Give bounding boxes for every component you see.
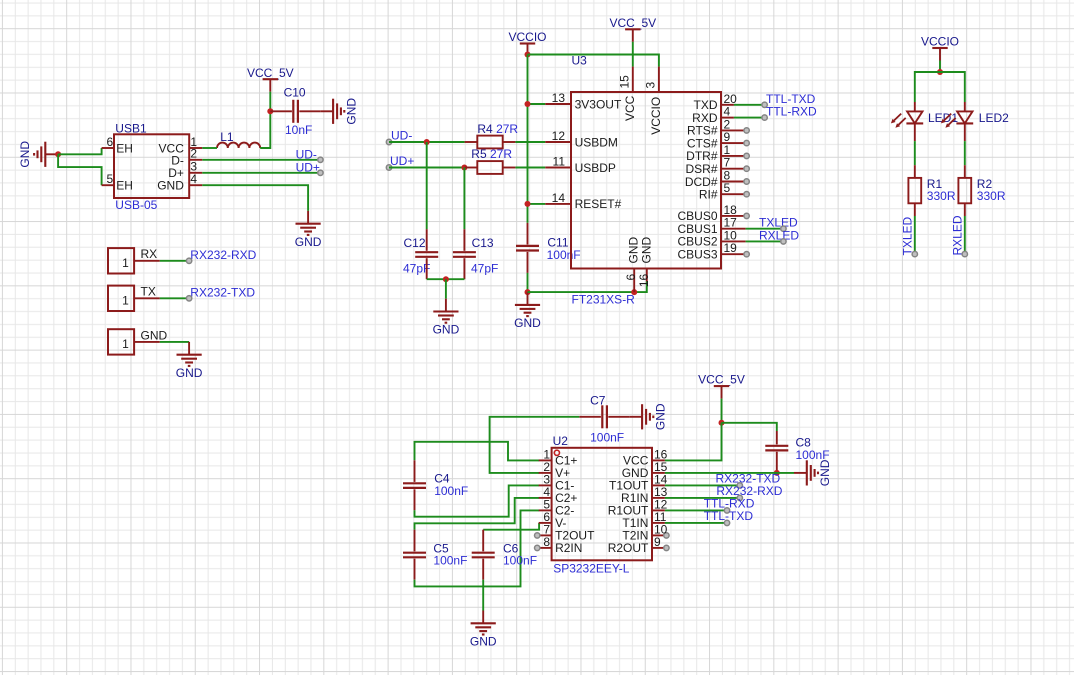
wire C5 to U2 C2-: [415, 510, 540, 586]
pin 18 CBUS0: [677, 203, 749, 223]
wire C11 to ground node: [527, 273, 529, 292]
svg-text:FT231XS-R: FT231XS-R: [572, 292, 636, 306]
wire R1OUT to TTL-RXD: [665, 509, 727, 511]
svg-text:GND: GND: [176, 366, 203, 380]
svg-text:VCCIO: VCCIO: [649, 97, 663, 135]
svg-text:13: 13: [552, 91, 566, 105]
net port TTL-RXD (U2): [704, 496, 755, 513]
op-amp U3 FT231XS-R body: [571, 54, 721, 307]
capacitor C8 100nF: [765, 431, 829, 473]
wire VCCIO rail down: [527, 55, 529, 223]
svg-text:100nF: 100nF: [590, 431, 624, 445]
svg-text:U3: U3: [572, 54, 588, 68]
pin 17 CBUS1: [677, 216, 745, 236]
svg-text:1: 1: [122, 293, 129, 307]
svg-text:EH: EH: [116, 141, 133, 155]
wire R2 to RXLED port: [964, 216, 966, 254]
svg-text:GND: GND: [295, 235, 322, 249]
svg-text:4: 4: [190, 172, 197, 186]
wire T1OUT to RX232-TXD: [665, 484, 740, 486]
wire U2 VCC pin to VCC_5V: [665, 423, 722, 461]
svg-text:RX232-RXD: RX232-RXD: [190, 248, 256, 262]
pin 16 VCC: [623, 447, 668, 467]
wire GND to USB1 pin 5: [58, 154, 102, 185]
svg-text:UD+: UD+: [390, 154, 414, 168]
svg-text:VCCIO: VCCIO: [921, 35, 959, 49]
capacitor C11 100nF: [516, 223, 581, 273]
svg-text:LED2: LED2: [979, 111, 1009, 125]
resistor R1 330R: [908, 165, 955, 216]
svg-text:10nF: 10nF: [285, 123, 312, 137]
junction at USB shield ground: [55, 151, 61, 157]
svg-text:UD-: UD-: [296, 147, 317, 161]
wire C7 to U2 V+: [490, 417, 580, 473]
svg-text:15: 15: [618, 75, 632, 89]
wire R5 to U3 USBDP: [515, 167, 545, 169]
wire U2 V- to C6: [483, 523, 539, 530]
svg-text:VCC: VCC: [623, 95, 637, 121]
wire TX to RX232-TXD: [160, 297, 189, 299]
svg-text:1: 1: [122, 256, 129, 270]
wire USB1 VCC to L1: [202, 147, 217, 149]
pin 6 EH: [102, 135, 133, 155]
pin 6 GND: [624, 237, 641, 293]
svg-text:16: 16: [637, 273, 651, 287]
wire TXD to TTL-TXD: [734, 104, 765, 106]
pin 3 D+: [168, 160, 202, 181]
LED LED1: [891, 102, 958, 141]
node U3 pin6 ground junction: [631, 289, 637, 295]
wire LED1 to R1: [914, 141, 916, 165]
wire USB1 GND down: [202, 185, 308, 211]
ground flag below GND header: [176, 342, 203, 380]
net port UD+ (mid): [386, 154, 414, 170]
svg-text:RXLED: RXLED: [759, 228, 799, 242]
svg-text:RX232-TXD: RX232-TXD: [190, 285, 255, 299]
net port UD- (mid): [386, 128, 412, 144]
wire VCC_5V to C8: [722, 423, 777, 431]
pin 8 R2IN: [535, 535, 583, 555]
svg-text:GND: GND: [470, 635, 497, 649]
svg-text:330R: 330R: [927, 189, 956, 203]
pin 9 CTS#: [687, 130, 749, 150]
wire U3 RESET# to rail: [528, 203, 546, 205]
svg-text:UD+: UD+: [296, 160, 320, 174]
pin 9 R2OUT: [608, 535, 669, 555]
pin 2 V+: [539, 460, 570, 480]
ground flag below C12/C13: [433, 299, 460, 337]
svg-text:11: 11: [553, 155, 566, 169]
pin 13 3V3OUT: [545, 91, 622, 111]
connector TX header: [108, 285, 160, 311]
svg-text:100nF: 100nF: [547, 248, 581, 262]
wire USB1 D- to port UD-: [202, 159, 320, 161]
svg-text:EH: EH: [116, 179, 133, 193]
ground flag right of C10: [320, 98, 358, 125]
power flag VCC_5V (U3): [609, 16, 656, 67]
node C8 ground junction: [774, 470, 780, 476]
svg-text:1: 1: [122, 337, 129, 351]
svg-text:C13: C13: [472, 236, 494, 250]
capacitor C13 47pF: [453, 229, 498, 279]
svg-text:12: 12: [552, 129, 566, 143]
capacitor C5 100nF: [403, 530, 467, 580]
svg-text:C7: C7: [590, 394, 606, 408]
svg-text:R2OUT: R2OUT: [608, 541, 649, 555]
capacitor C4 100nF: [403, 460, 468, 510]
svg-text:TXLED: TXLED: [901, 216, 915, 255]
svg-text:GND: GND: [157, 179, 184, 193]
svg-text:GND: GND: [639, 237, 653, 264]
ground flag below USB1 GND: [295, 211, 322, 249]
wire C6 to ground: [482, 580, 484, 611]
svg-text:47pF: 47pF: [471, 261, 498, 275]
node VCCIO top junction: [525, 52, 531, 58]
capacitor C12 47pF: [403, 229, 438, 279]
net port RX232-TXD (left): [186, 285, 255, 301]
pin 10 T2IN: [622, 522, 669, 542]
wire L1 to VCC_5V node: [260, 111, 270, 148]
svg-text:RI#: RI#: [699, 188, 718, 202]
wire UD+ down to C13: [463, 168, 465, 230]
pin 13 R1IN: [621, 485, 668, 505]
node VCC_5V / C10 junction: [267, 108, 273, 114]
capacitor C10 10nF: [270, 86, 320, 137]
svg-text:R4 27R: R4 27R: [477, 122, 518, 136]
svg-text:GND: GND: [514, 316, 541, 330]
pin 2 D-: [171, 147, 202, 168]
pin 7 T2OUT: [535, 522, 596, 542]
wire ground run to U3 GND pins: [528, 282, 647, 293]
wire C12/C13 commons: [427, 278, 465, 280]
wire VCCIO to U3 pin 3: [528, 55, 659, 67]
connector USB1 (USB-05) body: [114, 122, 189, 213]
node C11 ground junction: [525, 289, 531, 295]
net port TTL-TXD (U2): [704, 509, 754, 526]
svg-text:USBDP: USBDP: [575, 161, 616, 175]
svg-text:C12: C12: [404, 236, 426, 250]
connector GND header: [108, 328, 168, 354]
svg-text:330R: 330R: [977, 189, 1006, 203]
pin 5 RI#: [699, 181, 749, 201]
power flag VCC_5V (left): [247, 66, 294, 112]
wire U2 GND pin to ground: [665, 472, 794, 474]
svg-text:5: 5: [724, 181, 731, 195]
pin 11 T1IN: [622, 510, 666, 530]
wire RXD to TTL-RXD: [734, 117, 765, 119]
pin 16 GND: [637, 237, 654, 288]
node UD+ / C13 junction: [461, 165, 467, 171]
power flag VCCIO (LED): [921, 35, 959, 72]
pin 3 C1-: [539, 472, 575, 492]
svg-text:TX: TX: [141, 285, 156, 299]
svg-text:USB-05: USB-05: [115, 198, 157, 212]
pin 6 V-: [539, 510, 567, 530]
svg-text:R2IN: R2IN: [555, 541, 582, 555]
svg-text:19: 19: [724, 241, 738, 255]
node rail / RESET# junction: [525, 201, 531, 207]
svg-text:3: 3: [644, 82, 658, 89]
svg-text:USBDM: USBDM: [575, 135, 618, 149]
node U2 VCC junction: [719, 420, 725, 426]
pin 3 VCCIO: [644, 67, 663, 135]
connector RX header: [108, 247, 160, 273]
wire U3 3V3OUT to rail: [528, 103, 546, 105]
resistor R4 27R: [465, 122, 519, 149]
wire R1 to TXLED port: [914, 216, 916, 254]
svg-text:RX: RX: [141, 247, 158, 261]
pin 15 VCC: [618, 67, 637, 121]
svg-text:GND: GND: [653, 403, 667, 430]
pin 15 GND: [622, 460, 668, 480]
net port RX232-RXD (U2): [716, 484, 782, 500]
svg-text:GND: GND: [344, 98, 358, 125]
svg-text:100nF: 100nF: [434, 484, 468, 498]
pin 4 RXD: [692, 105, 734, 125]
pin 14 T1OUT: [609, 472, 668, 492]
pin 12 R1OUT: [608, 497, 668, 517]
pin 4 GND: [157, 172, 202, 192]
pin 4 C2+: [539, 485, 578, 505]
wire U2 C1+ to C4: [415, 442, 540, 461]
svg-text:GND: GND: [141, 328, 168, 342]
net port TTL-TXD (U3): [762, 92, 816, 108]
pin 1 VCC: [159, 135, 203, 155]
net port RXLED (U3): [759, 228, 799, 244]
pin 2 RTS#: [687, 117, 749, 137]
pin 5 EH: [102, 172, 133, 192]
pin 5 C2-: [539, 497, 575, 517]
svg-text:100nF: 100nF: [503, 554, 537, 568]
net port TXLED (U3): [759, 216, 798, 232]
svg-text:GND: GND: [433, 323, 460, 337]
node C12/C13 ground junction: [443, 276, 449, 282]
svg-text:SP3232EEY-L: SP3232EEY-L: [553, 561, 630, 575]
svg-text:TTL-RXD: TTL-RXD: [766, 105, 817, 119]
pin 12 USBDM: [545, 129, 618, 149]
pin 14 RESET#: [545, 191, 621, 211]
net port TTL-RXD (U3): [762, 105, 817, 121]
svg-text:RESET#: RESET#: [575, 197, 622, 211]
svg-text:VCC_5V: VCC_5V: [247, 66, 294, 80]
power flag VCCIO (left): [508, 30, 546, 56]
ground flag right of C7: [629, 403, 667, 430]
pin 1 C1+: [539, 447, 578, 467]
wire GND to USB1 pin 6: [58, 148, 102, 154]
wire UD+ to R5: [389, 167, 465, 169]
svg-text:CBUS3: CBUS3: [677, 248, 717, 262]
ground flag right of C8: [794, 459, 832, 486]
LED LED2: [941, 102, 1009, 141]
wire UD- down to C12: [426, 142, 428, 229]
wire junction down to ground: [445, 279, 447, 299]
svg-text:100nF: 100nF: [433, 554, 467, 568]
svg-text:UD-: UD-: [391, 128, 412, 142]
net port RXLED (LED side): [951, 215, 968, 257]
pin 10 CBUS2: [677, 228, 745, 248]
wire VCCIO to LED2: [940, 72, 965, 102]
node rail / 3V3OUT junction: [525, 101, 531, 107]
capacitor C7 100nF: [579, 394, 629, 445]
wire C4 to U2 C1-: [415, 485, 540, 516]
svg-text:GND: GND: [18, 141, 32, 168]
resistor R2 330R: [958, 165, 1005, 216]
net port UD+ (USB side): [296, 160, 323, 175]
wire USB1 D+ to port UD+: [202, 172, 320, 174]
pin 8 DCD#: [685, 169, 749, 189]
wire R4 to U3 USBDM: [515, 141, 545, 143]
inductor L1: [217, 130, 260, 148]
wire LED2 to R2: [964, 141, 966, 165]
wire RX to RX232-RXD: [160, 260, 189, 262]
node UD- / C12 junction: [424, 139, 430, 145]
svg-text:8: 8: [543, 535, 550, 549]
wire GND header to ground: [160, 341, 189, 343]
svg-text:USB1: USB1: [115, 122, 147, 136]
svg-text:9: 9: [654, 535, 661, 549]
pin 7 DSR#: [685, 156, 749, 176]
svg-text:RXLED: RXLED: [951, 215, 965, 255]
ground flag left of USB1: [18, 141, 58, 168]
pin 19 CBUS3: [677, 241, 749, 261]
svg-text:U2: U2: [553, 434, 569, 448]
ground flag below C6: [470, 611, 497, 649]
wire CBUS1 to TXLED: [746, 228, 784, 230]
svg-text:14: 14: [552, 191, 566, 205]
resistor R5 27R: [465, 147, 516, 174]
node LED VCCIO junction: [937, 69, 943, 75]
svg-text:VCC_5V: VCC_5V: [609, 16, 656, 30]
net port RX232-TXD (U2): [716, 472, 781, 488]
wire CBUS2 to RXLED: [746, 240, 784, 242]
svg-text:R5 27R: R5 27R: [471, 147, 512, 161]
svg-text:VCCIO: VCCIO: [508, 30, 546, 44]
svg-text:2: 2: [190, 147, 197, 161]
net port UD- (USB side): [296, 147, 323, 162]
pin 20 TXD: [694, 92, 738, 112]
net port TXLED (LED side): [901, 216, 918, 256]
op-amp U2 SP3232EEY-L body: [552, 434, 652, 575]
ground flag below C11: [514, 292, 541, 330]
capacitor C6 100nF: [472, 530, 537, 580]
svg-text:LED1: LED1: [928, 111, 958, 125]
wire UD- to R4: [389, 141, 465, 143]
wire U2 C2+ to C5: [415, 498, 540, 530]
svg-text:3V3OUT: 3V3OUT: [575, 97, 622, 111]
wire T1IN to TTL-TXD: [665, 522, 727, 524]
pin 11 USBDP: [545, 155, 616, 175]
pin 1 DTR#: [686, 143, 749, 163]
svg-text:C10: C10: [284, 86, 306, 100]
svg-text:VCC_5V: VCC_5V: [698, 373, 745, 387]
net port RX232-RXD (left): [186, 248, 256, 264]
wire R1IN to RX232-RXD: [665, 497, 740, 499]
svg-text:5: 5: [107, 172, 114, 186]
power flag VCC_5V (U2): [698, 373, 745, 423]
svg-text:6: 6: [107, 135, 114, 149]
wire VCCIO to LED1: [915, 72, 940, 102]
svg-text:GND: GND: [818, 459, 832, 486]
